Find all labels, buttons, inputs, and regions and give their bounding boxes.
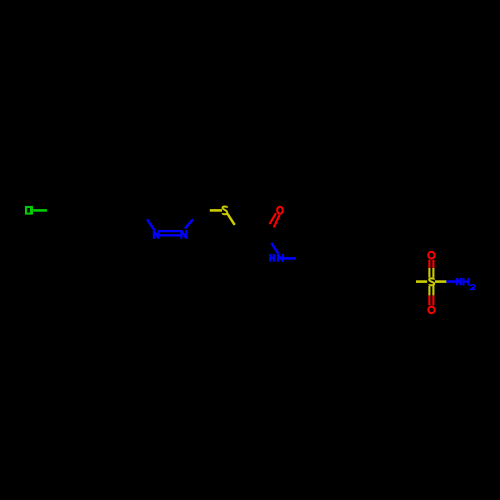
atom H of amide HN (270, 254, 274, 262)
bond S=O top double line 1 (yellow half near S) (428, 268, 430, 278)
bond C6-S thioether (yellow half) (210, 209, 222, 212)
atom O sulfonyl top (428, 252, 434, 259)
atom N2 of pyridazine (181, 230, 186, 239)
bond S=O bottom double line 2 (yellow half near S) (432, 286, 434, 296)
bond S=O top double line 2 (red half near O) (432, 260, 434, 268)
bond C=O carbonyl double line 1 (red half) (270, 213, 276, 224)
atom Cl (chlorine label, letter l) (31, 206, 33, 215)
subscript 2 of NH2 (471, 285, 475, 289)
bond C3-N1 of pyridazine (blue half) (147, 219, 154, 230)
atom S thioether (223, 207, 228, 215)
bond S=O bottom double line 2 (red half near O) (432, 295, 434, 305)
bond N2-C6 of pyridazine (blue half) (185, 219, 193, 228)
atom O carbonyl (277, 207, 283, 214)
atom Cl (chlorine label, letter C) (26, 207, 31, 214)
bond Cl-C aryl (green half) (33, 209, 47, 212)
bond C=O carbonyl double line 2 (red half) (274, 215, 280, 227)
bond S=O bottom double line 1 (red half near O) (428, 295, 430, 305)
bond N1=N2 double bond line 2 (main) (159, 234, 180, 236)
atom H of NH2 (463, 278, 468, 286)
bond S-N sulfonamide (yellow half) (435, 280, 447, 283)
atom N1 of pyridazine (154, 230, 159, 239)
bond S-N sulfonamide (blue half) (446, 280, 455, 283)
bond S-CH2 (yellow half) (227, 214, 234, 225)
bond S=O top double line 2 (yellow half near S) (432, 268, 434, 278)
bond N-C aryl (blue half) (284, 257, 296, 260)
atom N of amide HN (278, 254, 283, 262)
atom N of NH2 (457, 278, 461, 286)
bond N1=N2 double bond line 1 (inner) (159, 230, 180, 232)
bond C aryl-S sulfonyl (yellow half) (416, 280, 427, 283)
bond C(=O)-N amide (blue half) (271, 243, 278, 254)
bond S=O top double line 1 (red half near O) (428, 260, 430, 268)
atom S sulfonyl (429, 278, 434, 285)
bond S=O bottom double line 1 (yellow half near S) (428, 286, 430, 296)
atom O sulfonyl bottom (428, 307, 434, 314)
